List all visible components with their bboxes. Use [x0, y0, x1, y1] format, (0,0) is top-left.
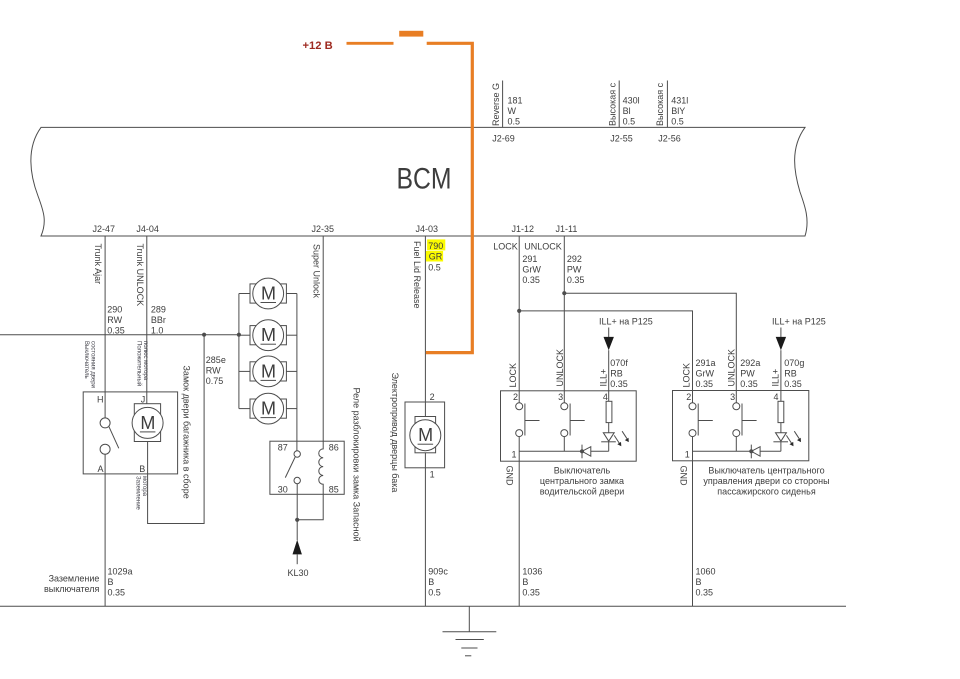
svg-text:4: 4	[603, 392, 608, 402]
svg-text:0.35: 0.35	[696, 379, 714, 389]
svg-text:Заземление: Заземление	[49, 574, 100, 584]
passenger switch diode	[749, 445, 760, 459]
wire branch LOCK to passenger switch	[519, 311, 692, 403]
svg-text:UNLOCK: UNLOCK	[524, 241, 562, 251]
svg-text:070f: 070f	[610, 358, 628, 368]
svg-text:B: B	[428, 577, 434, 587]
driver UNLOCK contact	[561, 403, 585, 452]
svg-text:J2-69: J2-69	[492, 133, 515, 143]
wire branch UNLOCK to passenger switch	[564, 293, 736, 403]
svg-text:GND: GND	[679, 466, 689, 487]
wire 285e branch	[148, 335, 226, 524]
svg-text:UNLOCK: UNLOCK	[555, 349, 565, 387]
wire Fuel Lid Release from J4-03	[412, 236, 425, 417]
svg-text:Выключатель центрального: Выключатель центрального	[708, 466, 824, 476]
svg-text:J2-47: J2-47	[93, 224, 116, 234]
svg-text:M: M	[261, 361, 276, 381]
svg-text:0.5: 0.5	[671, 117, 684, 127]
wire passenger GND 1060	[696, 567, 716, 598]
svg-text:1.0: 1.0	[151, 326, 164, 336]
svg-text:PW: PW	[567, 264, 582, 274]
svg-text:291: 291	[522, 254, 537, 264]
svg-text:Super Unlock: Super Unlock	[311, 244, 321, 299]
svg-text:Заземление: Заземление	[135, 476, 141, 511]
svg-text:790: 790	[428, 241, 443, 251]
fuel door actuator box	[405, 392, 445, 480]
svg-text:GrW: GrW	[696, 368, 715, 378]
svg-text:1: 1	[511, 450, 516, 460]
svg-text:Высокая с: Высокая с	[607, 82, 617, 126]
svg-text:Bl: Bl	[623, 106, 631, 116]
svg-text:0.5: 0.5	[623, 117, 636, 127]
wire feed bus to lock motors	[0, 334, 239, 336]
svg-text:3: 3	[558, 392, 563, 402]
junction dot motor bus	[237, 333, 241, 337]
svg-text:B: B	[696, 577, 702, 587]
svg-text:3: 3	[730, 392, 735, 402]
svg-text:181: 181	[508, 96, 523, 106]
relay box	[270, 441, 344, 494]
motor M3	[239, 356, 297, 387]
svg-text:86: 86	[329, 442, 339, 452]
lock motors left bus	[238, 294, 240, 409]
svg-text:BBr: BBr	[151, 315, 166, 325]
passenger door switch box	[673, 391, 809, 461]
junction dot	[517, 309, 521, 313]
svg-text:состояния двери: состояния двери	[90, 341, 96, 388]
svg-text:A: A	[97, 464, 103, 474]
svg-text:431l: 431l	[671, 96, 688, 106]
KL30 supply arrow	[288, 520, 309, 578]
svg-text:ILL+ на Р125: ILL+ на Р125	[772, 317, 826, 327]
rotated label Выключатель состояния двери	[83, 341, 96, 388]
ILL+ arrow to passenger switch	[772, 317, 826, 402]
highlighted wire label 790 GR 0.5	[426, 239, 445, 272]
svg-text:H: H	[97, 394, 104, 404]
svg-text:RB: RB	[610, 368, 623, 378]
trunk lock assembly box	[83, 392, 177, 474]
svg-text:управления двери со стороны: управления двери со стороны	[703, 476, 829, 486]
svg-text:2: 2	[513, 392, 518, 402]
trunk lock motor	[132, 404, 163, 442]
rotated label Заземление мотора	[135, 476, 148, 511]
svg-text:UNLOCK: UNLOCK	[727, 349, 737, 387]
svg-text:Fuel Lid Release: Fuel Lid Release	[412, 241, 422, 309]
svg-text:M: M	[261, 284, 276, 304]
svg-text:J: J	[141, 394, 146, 404]
svg-text:Trunk Ajar: Trunk Ajar	[93, 244, 103, 285]
svg-text:J2-56: J2-56	[658, 133, 681, 143]
svg-text:RB: RB	[784, 368, 797, 378]
svg-text:GND: GND	[505, 466, 515, 487]
svg-text:0.35: 0.35	[522, 275, 540, 285]
caption driver switch	[540, 466, 624, 497]
svg-text:30: 30	[278, 485, 288, 495]
svg-text:ILL+: ILL+	[770, 369, 780, 387]
driver door lock switch box	[501, 391, 637, 461]
svg-text:0.5: 0.5	[508, 117, 521, 127]
svg-text:J4-04: J4-04	[136, 224, 159, 234]
wire Super Unlock from J2-35	[311, 236, 323, 441]
svg-text:285e: 285e	[206, 355, 226, 365]
ILL+ arrow to driver switch	[599, 317, 653, 402]
passenger UNLOCK contact	[733, 403, 757, 452]
svg-text:0.35: 0.35	[108, 588, 126, 598]
svg-text:KL30: KL30	[288, 568, 309, 578]
svg-text:+12 В: +12 В	[303, 40, 333, 52]
svg-text:Замок двери багажника в сборе: Замок двери багажника в сборе	[182, 366, 192, 499]
wire UNLOCK 292 from J1-11	[524, 236, 584, 403]
svg-text:0.5: 0.5	[428, 588, 441, 598]
motor M2	[239, 320, 297, 351]
caption passenger switch	[703, 466, 829, 497]
lock motors right bus down to relay pin 87	[296, 294, 298, 442]
wire Reverse G into pin J2-69	[491, 81, 523, 128]
ground symbol	[443, 606, 497, 656]
wire Trunk UNLOCK from J4-04	[135, 236, 166, 404]
wire Высокая into pin J2-55	[607, 81, 639, 128]
driver switch illumination resistor	[606, 401, 612, 422]
relay coil	[297, 441, 323, 520]
svg-text:M: M	[418, 425, 433, 445]
junction dot relay common	[295, 518, 299, 522]
junction dot 285e branch	[202, 333, 206, 337]
svg-text:мотора: мотора	[141, 476, 147, 497]
svg-text:водительской двери: водительской двери	[540, 487, 624, 497]
trunk ajar switch	[100, 418, 119, 454]
svg-text:J1-12: J1-12	[512, 224, 535, 234]
ground bus	[0, 605, 846, 607]
driver switch LED	[601, 423, 629, 452]
svg-text:Выключатель: Выключатель	[554, 466, 611, 476]
svg-text:1036: 1036	[522, 567, 542, 577]
svg-text:M: M	[261, 325, 276, 345]
BCM module box	[31, 127, 807, 236]
wire driver GND 1036	[522, 567, 542, 598]
svg-text:1: 1	[685, 450, 690, 460]
svg-text:M: M	[140, 413, 155, 433]
svg-text:LOCK: LOCK	[493, 241, 518, 251]
svg-text:0.35: 0.35	[567, 275, 585, 285]
wire LOCK 291 from J1-12	[493, 236, 541, 403]
svg-text:J2-35: J2-35	[312, 224, 335, 234]
svg-text:0.35: 0.35	[740, 379, 758, 389]
wire Высокая into pin J2-56	[655, 81, 688, 128]
svg-text:Высокая с: Высокая с	[655, 82, 665, 126]
svg-text:Электропривод дверцы бака: Электропривод дверцы бака	[390, 373, 400, 493]
svg-text:Положительный: Положительный	[136, 341, 143, 386]
svg-text:выключателя: выключателя	[44, 584, 100, 594]
svg-text:B: B	[139, 464, 145, 474]
svg-text:B: B	[522, 577, 528, 587]
svg-text:ILL+ на Р125: ILL+ на Р125	[599, 317, 653, 327]
svg-text:0.35: 0.35	[610, 379, 628, 389]
svg-text:292a: 292a	[740, 358, 760, 368]
svg-text:290: 290	[107, 305, 122, 315]
svg-text:85: 85	[329, 485, 339, 495]
svg-text:J2-55: J2-55	[610, 133, 633, 143]
wire +12V feed	[347, 42, 394, 45]
svg-text:87: 87	[278, 442, 288, 452]
svg-text:LOCK: LOCK	[682, 363, 692, 388]
svg-text:0.35: 0.35	[696, 588, 714, 598]
svg-text:Reverse G: Reverse G	[491, 83, 501, 126]
svg-text:Реле разблокировки замка Запас: Реле разблокировки замка Запасной	[352, 388, 362, 542]
svg-text:GR: GR	[429, 252, 443, 262]
passenger switch internal bus	[693, 450, 781, 452]
wire +12V to fuel release	[426, 43, 472, 352]
svg-text:Выключатель: Выключатель	[83, 341, 89, 379]
svg-text:292: 292	[567, 254, 582, 264]
svg-text:LOCK: LOCK	[508, 363, 518, 388]
fuse	[399, 31, 423, 37]
svg-text:W: W	[508, 106, 517, 116]
passenger LOCK contact	[689, 403, 713, 607]
svg-text:0.35: 0.35	[522, 588, 540, 598]
passenger wire label 292a	[740, 358, 760, 389]
label Заземление выключателя	[44, 574, 100, 594]
svg-text:289: 289	[151, 305, 166, 315]
svg-text:BCM: BCM	[397, 163, 452, 196]
svg-text:4: 4	[773, 392, 778, 402]
svg-text:1: 1	[430, 470, 435, 480]
svg-text:M: M	[261, 399, 276, 419]
passenger wire label 291a	[696, 358, 716, 389]
svg-text:PW: PW	[740, 368, 755, 378]
svg-text:пассажирского сиденья: пассажирского сиденья	[717, 487, 816, 497]
svg-text:B: B	[108, 577, 114, 587]
svg-text:0.35: 0.35	[784, 379, 802, 389]
svg-text:070g: 070g	[784, 358, 804, 368]
svg-text:BlY: BlY	[671, 106, 685, 116]
wire switch A to ground 1029a	[105, 454, 132, 606]
passenger switch LED	[773, 423, 801, 452]
svg-text:1060: 1060	[696, 567, 716, 577]
driver switch internal bus	[519, 450, 609, 452]
svg-text:909c: 909c	[428, 567, 448, 577]
svg-text:0.35: 0.35	[107, 326, 125, 336]
wire fuel motor to ground 909c	[425, 453, 448, 607]
relay switch contacts	[285, 441, 300, 520]
svg-text:RW: RW	[107, 315, 122, 325]
passenger switch illumination resistor	[778, 401, 784, 422]
svg-text:1029a: 1029a	[108, 567, 133, 577]
svg-text:GrW: GrW	[522, 264, 541, 274]
rotated label Положительный полюс мотора	[136, 341, 149, 386]
driver switch diode	[580, 445, 591, 459]
svg-text:2: 2	[430, 392, 435, 402]
svg-text:RW: RW	[206, 366, 221, 376]
svg-text:полюс мотора: полюс мотора	[142, 341, 148, 381]
svg-text:0.75: 0.75	[206, 376, 224, 386]
svg-text:J4-03: J4-03	[416, 224, 439, 234]
svg-text:ILL+: ILL+	[599, 369, 609, 387]
svg-text:центрального замка: центрального замка	[540, 476, 624, 486]
svg-text:291a: 291a	[696, 358, 716, 368]
svg-text:430l: 430l	[623, 96, 640, 106]
junction dot	[562, 291, 566, 295]
svg-text:Trunk UNLOCK: Trunk UNLOCK	[135, 244, 145, 307]
svg-text:J1-11: J1-11	[556, 224, 578, 234]
motor M1	[239, 278, 297, 309]
wire Trunk Ajar from J2-47	[93, 236, 125, 418]
driver LOCK contact	[516, 403, 540, 607]
svg-text:0.5: 0.5	[428, 262, 441, 272]
fuel door motor	[410, 417, 441, 453]
motor M4	[239, 393, 297, 424]
svg-text:2: 2	[686, 392, 691, 402]
